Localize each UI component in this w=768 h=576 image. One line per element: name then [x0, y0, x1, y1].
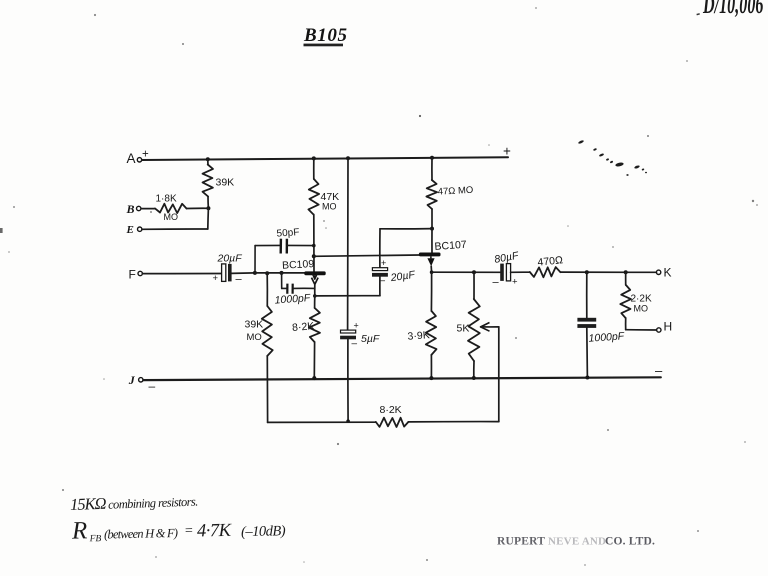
- svg-text:–: –: [236, 274, 243, 286]
- resistor 1.8K MO (B input): [142, 194, 209, 223]
- node J rail / 1000pF: [585, 376, 589, 380]
- node top rail / 39K: [206, 157, 210, 161]
- terminal E: [126, 224, 142, 236]
- svg-text:47Ω MO: 47Ω MO: [437, 185, 473, 198]
- node 2.2K top: [624, 270, 628, 274]
- transistor BC109: [282, 258, 326, 296]
- svg-text:B: B: [126, 202, 135, 216]
- svg-text:1·8K: 1·8K: [156, 194, 177, 205]
- wire 2.2K to H: [626, 329, 657, 331]
- node base branch 50pF: [253, 271, 257, 275]
- capacitor 1000pF output: [577, 272, 625, 377]
- capacitor 20uF input (F coupling): [142, 253, 255, 286]
- node top rail / 47ohm: [430, 156, 434, 160]
- resistor 3.9K (BC107 emitter): [407, 272, 436, 378]
- resistor 39K MO (base bias / feedback): [245, 273, 273, 422]
- diagonal scratch marks: [578, 140, 647, 176]
- svg-text:FB: FB: [89, 534, 102, 544]
- wire bootstrap cap to BC109 emitter: [315, 277, 380, 296]
- svg-text:–: –: [352, 339, 358, 350]
- note RFB formula: [71, 513, 286, 544]
- svg-text:CO. LTD.: CO. LTD.: [605, 536, 655, 548]
- svg-text:A: A: [127, 151, 136, 166]
- svg-text:39K: 39K: [245, 319, 264, 331]
- svg-text:+: +: [512, 277, 518, 288]
- node J rail / 3.9K: [429, 376, 433, 380]
- terminal H: [657, 320, 673, 334]
- node 5uF / feedback line: [346, 419, 350, 423]
- svg-text:J: J: [128, 373, 136, 387]
- stamp RUPERT NEVE AND CO. LTD.: [497, 536, 655, 548]
- svg-text:MO: MO: [634, 304, 649, 314]
- svg-text:F: F: [129, 268, 136, 282]
- node BC107 collector / bootstrap: [430, 227, 434, 231]
- svg-text:3·9K: 3·9K: [407, 329, 430, 343]
- svg-text:5K: 5K: [457, 323, 470, 335]
- wiper arrow of 5K: [481, 323, 499, 422]
- svg-text:5µF: 5µF: [361, 333, 380, 345]
- svg-text:=: =: [184, 524, 194, 539]
- svg-text:NEVE AND: NEVE AND: [548, 536, 606, 548]
- svg-text:+: +: [354, 321, 359, 331]
- node B junction: [206, 206, 210, 210]
- svg-text:H: H: [664, 320, 673, 334]
- wire F node to BC109 base: [255, 272, 305, 274]
- svg-text:BC107: BC107: [434, 239, 467, 253]
- svg-text:D/10,006: D/10,006: [702, 0, 763, 19]
- svg-text:20µF: 20µF: [217, 253, 243, 265]
- wire collector node down to BC107: [431, 229, 433, 253]
- terminal B: [126, 202, 141, 216]
- transistor BC107: [419, 239, 467, 272]
- node 50pF to collector: [312, 244, 316, 248]
- terminal F: [129, 268, 143, 282]
- capacitor 1000pF (BC109 base-emitter): [274, 273, 315, 307]
- svg-text:+: +: [381, 258, 386, 268]
- svg-text:1000pF: 1000pF: [274, 292, 311, 306]
- svg-text:50pF: 50pF: [276, 227, 300, 240]
- wire feedback line right: [408, 421, 498, 423]
- svg-text:8·2K: 8·2K: [380, 404, 402, 416]
- capacitor 5uF (rail decoupling): [340, 321, 380, 350]
- resistor 8.2K feedback: [376, 404, 409, 427]
- svg-text:–: –: [493, 277, 500, 289]
- node top rail / 47K: [312, 156, 316, 160]
- svg-text:4·7K: 4·7K: [197, 521, 233, 542]
- resistor 8.2K (BC109 emitter): [292, 296, 320, 378]
- resistor 39K (A rail to B): [203, 159, 235, 208]
- svg-text:BC109: BC109: [282, 258, 315, 272]
- wire feedback line left: [268, 421, 376, 423]
- resistor 47K MO (BC109 collector load): [308, 158, 339, 271]
- svg-text:8·2K: 8·2K: [292, 320, 315, 334]
- wire bootstrap branch: [380, 229, 432, 268]
- node BC109 emitter: [313, 294, 317, 298]
- wire emitter output line: [432, 271, 501, 273]
- node 1000pF top: [585, 270, 589, 274]
- capacitor 80uF output: [493, 250, 530, 289]
- svg-text:–: –: [655, 363, 663, 378]
- capacitor 20uF bootstrap: [372, 258, 416, 287]
- terminal J: [128, 373, 156, 393]
- capacitor 50pF (base-collector): [255, 227, 314, 273]
- wire top rail to 5uF: [347, 158, 349, 330]
- resistor 2.2K MO: [620, 272, 652, 330]
- wire 470ohm to K: [560, 271, 656, 273]
- wire BC109 collector to BC107 base: [314, 255, 419, 256]
- wire bottom rail (J / minus): [143, 363, 663, 380]
- svg-text:K: K: [664, 266, 672, 280]
- node base branch 39K-MO: [265, 271, 269, 275]
- node J rail / 5K: [472, 376, 476, 380]
- terminal K: [656, 266, 671, 280]
- node 5K top: [472, 270, 476, 274]
- svg-text:MO: MO: [164, 212, 179, 222]
- label + right end of top rail: [503, 144, 511, 159]
- note 15K combining resistors: [70, 491, 198, 514]
- svg-text:+: +: [503, 144, 511, 159]
- potentiometer 5K: [457, 272, 480, 378]
- svg-text:MO: MO: [322, 202, 337, 212]
- svg-text:+: +: [142, 149, 149, 161]
- svg-text:R: R: [71, 517, 88, 544]
- drawing number D/10,006 (cut at top edge): [696, 0, 763, 19]
- svg-text:MO: MO: [247, 332, 262, 343]
- node BC107 emitter: [430, 270, 434, 274]
- node top rail / 5uF line: [346, 156, 350, 160]
- svg-text:(between H & F): (between H & F): [104, 526, 178, 542]
- resistor 47ohm MO (BC107 collector): [426, 158, 473, 229]
- resistor 470ohm: [530, 254, 564, 277]
- svg-text:B105: B105: [303, 25, 348, 46]
- terminal A: [127, 149, 150, 167]
- svg-text:15KΩ: 15KΩ: [70, 494, 107, 514]
- svg-text:1000pF: 1000pF: [588, 330, 625, 344]
- wire top supply rail: [142, 157, 508, 160]
- svg-text:39K: 39K: [216, 177, 235, 189]
- svg-text:+: +: [213, 273, 219, 284]
- node BC107 base tap: [312, 254, 316, 258]
- node base BC109 / 1000pF: [280, 271, 284, 275]
- title B105: [303, 25, 348, 46]
- svg-text:E: E: [126, 224, 134, 236]
- node J rail / 8.2K: [312, 376, 316, 380]
- wire E to B junction: [142, 208, 209, 229]
- wire 5uF to feedback node: [347, 339, 349, 421]
- svg-text:(–10dB): (–10dB): [241, 523, 286, 540]
- svg-text:RUPERT: RUPERT: [497, 536, 545, 548]
